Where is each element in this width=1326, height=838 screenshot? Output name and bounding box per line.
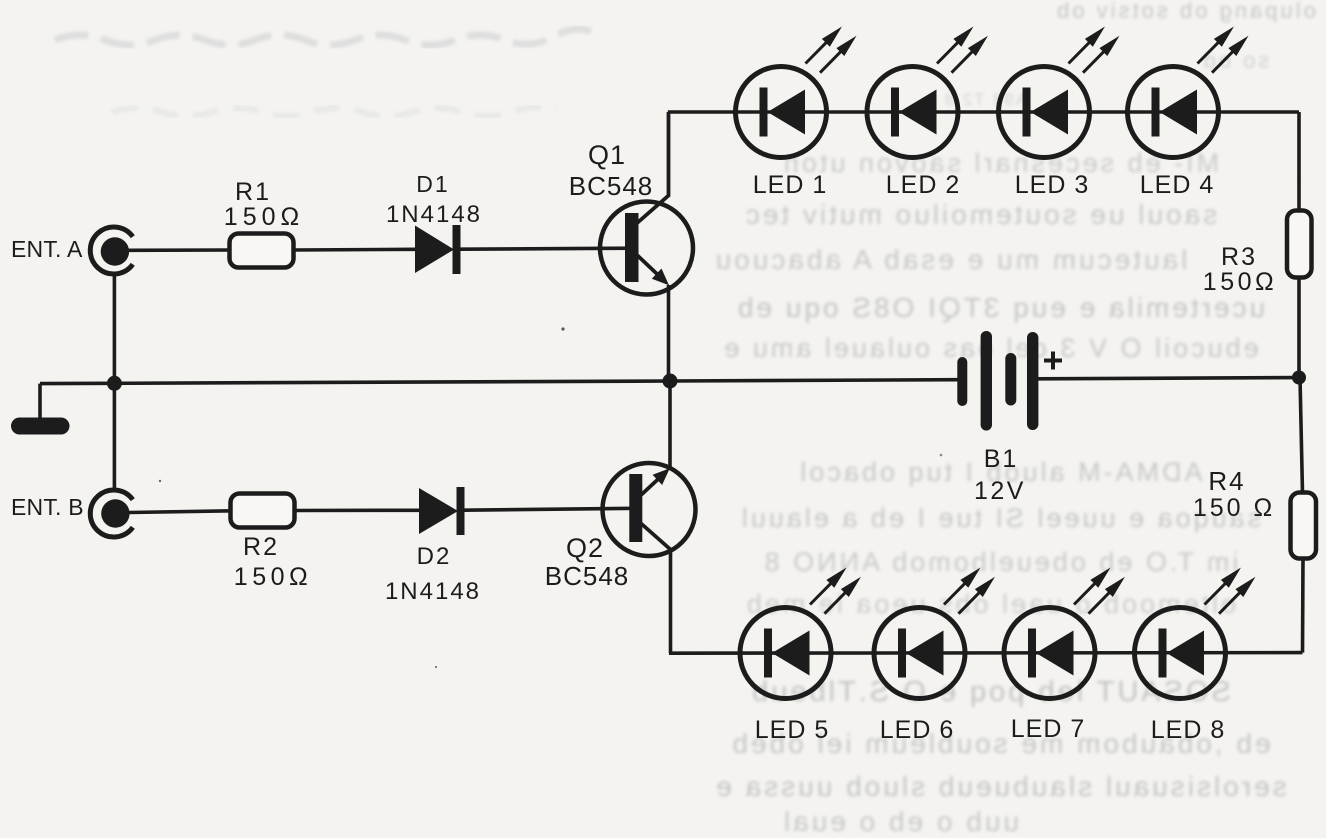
svg-text:150Ω: 150Ω [224, 203, 304, 231]
svg-text:B1: B1 [984, 445, 1019, 473]
svg-text:BC548: BC548 [545, 561, 630, 591]
svg-text:12V: 12V [974, 477, 1026, 505]
svg-text:1N4148: 1N4148 [385, 578, 481, 605]
svg-text:D2: D2 [417, 543, 452, 570]
svg-text:LED 7: LED 7 [1011, 715, 1085, 743]
svg-text:R4: R4 [1208, 466, 1245, 496]
svg-text:olupang ob sotsiv ob: olupang ob sotsiv ob [1054, 0, 1316, 23]
svg-text:150 Ω: 150 Ω [1193, 494, 1275, 522]
svg-text:LED 4: LED 4 [1140, 171, 1214, 199]
svg-text:LED 5: LED 5 [755, 716, 829, 744]
svg-text:Q2: Q2 [566, 533, 604, 563]
svg-text:150Ω: 150Ω [234, 563, 312, 591]
svg-text:R3: R3 [1221, 243, 1257, 271]
svg-text:serolsisuaul slaubueub sluob u: serolsisuaul slaubueub sluob uussa e [713, 771, 1286, 802]
svg-text:saoul ue soutemoiluo mutiv tec: saoul ue soutemoiluo mutiv tec [743, 199, 1217, 230]
svg-text:ENT. A: ENT. A [11, 236, 83, 262]
svg-text:R2: R2 [243, 533, 279, 561]
svg-text:LED 6: LED 6 [880, 716, 954, 744]
svg-text:LED 8: LED 8 [1151, 716, 1225, 744]
svg-text:im T.O eb obeuelbomob ANNO 8: im T.O eb obeuelbomob ANNO 8 [762, 547, 1239, 577]
svg-text:150Ω: 150Ω [1203, 268, 1277, 296]
svg-text:Q1: Q1 [588, 140, 626, 170]
svg-text:sauqoa e uueel SI tue I eb a e: sauqoa e uueel SI tue I eb a elauul [739, 503, 1261, 533]
svg-text:LED 2: LED 2 [886, 171, 960, 199]
svg-text:1N4148: 1N4148 [386, 201, 482, 228]
svg-text:D1: D1 [416, 171, 449, 197]
svg-text:R1: R1 [235, 178, 271, 206]
svg-text:LED 3: LED 3 [1015, 171, 1089, 199]
svg-text:oltemoob o uael obs ueoa le me: oltemoob o uael obs ueoa le meb [744, 589, 1236, 619]
svg-text:ENT. B: ENT. B [11, 494, 84, 520]
svg-text:lautecum mu e esab A abacuou: lautecum mu e esab A abacuou [713, 244, 1188, 275]
svg-text:LED 1: LED 1 [753, 171, 827, 199]
svg-text:uub o eb o eual: uub o eb o eual [781, 806, 1019, 837]
svg-text:BC548: BC548 [569, 171, 654, 201]
svg-text:ucertemila e euq 3TQI O8S oqu: ucertemila e euq 3TQI O8S oqu eb [735, 292, 1265, 323]
